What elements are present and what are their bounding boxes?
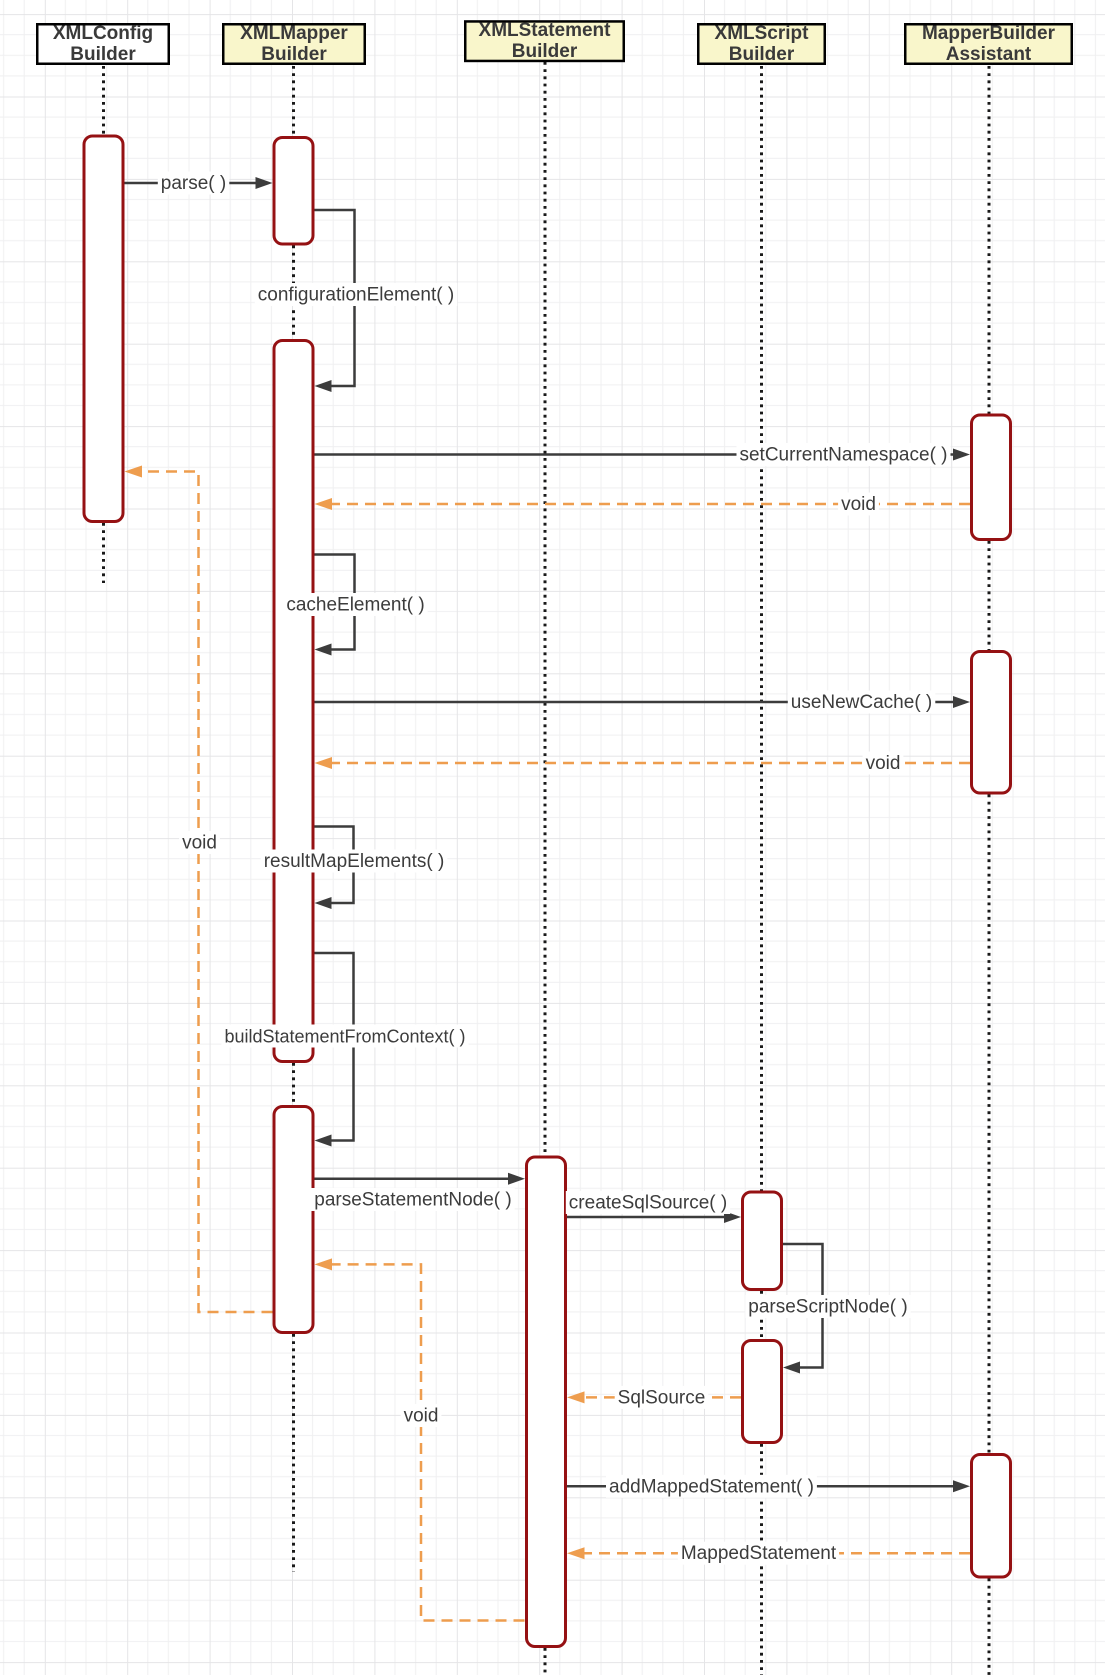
call message parse() (125, 177, 273, 189)
label cacheElement() (283, 593, 427, 616)
svg-text:Builder: Builder (512, 41, 578, 62)
call message useNewCache() (315, 696, 971, 708)
call message createSqlSource() (567, 1211, 741, 1223)
self-call message cacheElement() (315, 555, 355, 656)
svg-text:void: void (841, 494, 876, 515)
svg-text:parseStatementNode( ): parseStatementNode( ) (314, 1190, 512, 1211)
svg-text:setCurrentNamespace( ): setCurrentNamespace( ) (739, 445, 947, 466)
self-call message parseScriptNode() (783, 1244, 823, 1374)
label addMappedStatement() (606, 1475, 817, 1498)
lifeline XMLMapperBuilder (292, 66, 295, 1572)
svg-text:XMLMapper: XMLMapper (240, 23, 348, 44)
return message SqlSource (567, 1391, 741, 1403)
label parseScriptNode() (745, 1295, 910, 1318)
svg-text:MappedStatement: MappedStatement (681, 1543, 837, 1564)
label SqlSource (615, 1386, 709, 1409)
activation XMLMapperBuilder #2 (274, 341, 313, 1062)
participant header XMLScriptBuilder (698, 23, 825, 65)
activation XMLStatementBuilder #1 (527, 1157, 566, 1647)
activation MapperBuilderAssistant #2 (972, 652, 1011, 794)
lifeline XMLStatementBuilder (544, 62, 547, 1675)
label setCurrentNamespace() (737, 443, 951, 466)
svg-text:parseScriptNode( ): parseScriptNode( ) (748, 1297, 907, 1318)
svg-text:cacheElement( ): cacheElement( ) (286, 595, 424, 616)
self-call message buildStatementFromContext() (315, 953, 354, 1147)
label MappedStatement (678, 1542, 839, 1565)
activation XMLMapperBuilder #1 (274, 138, 313, 245)
self-call message configurationElement() (315, 210, 355, 392)
activation MapperBuilderAssistant #1 (972, 415, 1011, 540)
svg-text:void: void (182, 833, 217, 854)
call message parseStatementNode() (315, 1173, 526, 1185)
participant header XMLConfigBuilder (37, 23, 169, 65)
svg-text:parse( ): parse( ) (161, 173, 226, 194)
svg-text:void: void (866, 753, 901, 774)
activation MapperBuilderAssistant #3 (972, 1455, 1011, 1578)
lifeline XMLScriptBuilder (760, 66, 763, 1675)
return message void (parseStatementNode) (315, 1258, 525, 1620)
svg-text:MapperBuilder: MapperBuilder (922, 23, 1056, 44)
svg-text:Assistant: Assistant (946, 44, 1032, 65)
svg-text:buildStatementFromContext( ): buildStatementFromContext( ) (224, 1027, 465, 1047)
label void (parseStatementNode) (401, 1404, 442, 1427)
svg-text:configurationElement( ): configurationElement( ) (258, 285, 454, 306)
label useNewCache() (788, 691, 936, 714)
label buildStatementFromContext() (221, 1025, 468, 1048)
return message void (setCurrentNamespace) (315, 498, 971, 510)
return message MappedStatement (567, 1547, 970, 1559)
participant header XMLMapperBuilder (223, 23, 365, 65)
svg-text:XMLStatement: XMLStatement (479, 20, 612, 41)
lifeline MapperBuilderAssistant (988, 66, 991, 1675)
return message void (useNewCache) (315, 757, 971, 769)
svg-text:void: void (404, 1406, 439, 1427)
svg-text:resultMapElements( ): resultMapElements( ) (264, 851, 445, 872)
label void (useNewCache) (863, 752, 904, 775)
activation XMLScriptBuilder #1 (743, 1192, 782, 1290)
svg-text:useNewCache( ): useNewCache( ) (791, 692, 933, 713)
self-call message resultMapElements() (315, 827, 354, 910)
return message void (parse) (125, 466, 273, 1313)
participant header XMLStatementBuilder (465, 20, 624, 62)
svg-text:XMLConfig: XMLConfig (53, 23, 153, 44)
activation XMLConfigBuilder #1 (84, 136, 123, 522)
svg-text:createSqlSource( ): createSqlSource( ) (569, 1193, 727, 1214)
svg-text:XMLScript: XMLScript (715, 23, 810, 44)
svg-text:SqlSource: SqlSource (618, 1387, 706, 1408)
activation XMLScriptBuilder #2 (743, 1341, 782, 1443)
label parseStatementNode() (311, 1188, 515, 1211)
participant header MapperBuilderAssistant (905, 23, 1072, 65)
svg-text:Builder: Builder (70, 44, 136, 65)
svg-text:Builder: Builder (261, 44, 327, 65)
activation XMLMapperBuilder #3 (274, 1107, 313, 1333)
call message setCurrentNamespace() (315, 449, 971, 461)
call message addMappedStatement() (567, 1480, 970, 1492)
label void (setCurrentNamespace) (838, 493, 879, 516)
label createSqlSource() (566, 1191, 730, 1214)
label configurationElement() (255, 283, 457, 306)
label resultMapElements() (261, 850, 448, 873)
svg-text:addMappedStatement( ): addMappedStatement( ) (609, 1476, 814, 1497)
lifeline XMLConfigBuilder (102, 66, 105, 583)
svg-text:Builder: Builder (729, 44, 795, 65)
label void (parse) (179, 831, 220, 854)
label parse() (158, 172, 230, 195)
